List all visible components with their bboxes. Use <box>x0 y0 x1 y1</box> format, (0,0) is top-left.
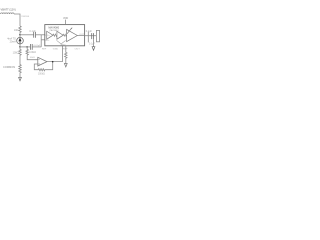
svg-text:10kΩ: 10kΩ <box>30 57 36 59</box>
svg-text:10Ω: 10Ω <box>14 29 19 32</box>
svg-text:100Ω: 100Ω <box>13 51 19 54</box>
svg-text:OUT: OUT <box>79 34 84 36</box>
svg-text:0.1µF: 0.1µF <box>89 43 96 45</box>
svg-text:0.1µF: 0.1µF <box>86 30 93 33</box>
svg-text:RS+: RS+ <box>46 35 51 37</box>
svg-text:100kΩ: 100kΩ <box>38 73 45 75</box>
svg-text:VDD: VDD <box>63 17 68 20</box>
svg-text:20mA: 20mA <box>10 40 17 43</box>
svg-text:REF: REF <box>42 49 47 51</box>
svg-text:100kΩ: 100kΩ <box>29 52 36 54</box>
svg-text:REF: REF <box>63 49 69 51</box>
svg-text:VBATT (12V): VBATT (12V) <box>1 8 16 12</box>
svg-text:GND: GND <box>61 44 66 46</box>
svg-text:OUT: OUT <box>75 49 81 51</box>
svg-text:COMMON: COMMON <box>3 65 15 69</box>
svg-text:0.1µF: 0.1µF <box>29 30 36 33</box>
svg-text:GND: GND <box>53 49 59 51</box>
svg-text:RS-: RS- <box>46 40 50 42</box>
svg-text:RSENSE: RSENSE <box>21 16 30 18</box>
